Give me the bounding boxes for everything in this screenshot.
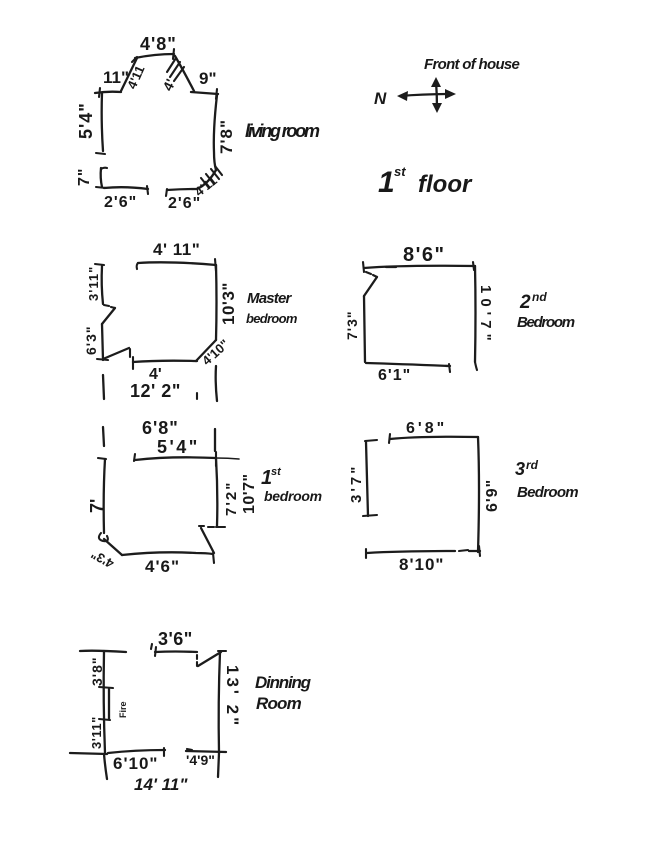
wall bed3 top: [390, 437, 478, 439]
DINING ROOM: [70, 629, 312, 794]
svg-text:7'3": 7'3": [344, 310, 360, 340]
wall master bottom: [133, 361, 197, 362]
svg-text:8'10": 8'10": [399, 555, 444, 574]
svg-text:Fire: Fire: [118, 701, 128, 718]
tick bottom-left: [365, 549, 367, 558]
svg-text:bedroom: bedroom: [246, 311, 298, 326]
svg-text:6'10": 6'10": [113, 754, 158, 773]
tick top-left: [132, 57, 137, 62]
wall stub below-left: [104, 754, 107, 779]
door jamb dashes: [196, 655, 198, 666]
svg-text:st: st: [271, 466, 282, 478]
tick bottom mid: [163, 748, 165, 756]
wall diagonal corner: [104, 539, 122, 555]
wall stub above-right: [214, 429, 216, 451]
tick dim top: [365, 440, 377, 441]
svg-text:Bedroom: Bedroom: [517, 314, 575, 331]
svg-text:4'6": 4'6": [145, 557, 180, 576]
svg-text:12' 2": 12' 2": [130, 381, 181, 401]
svg-text:8'6": 8'6": [403, 244, 445, 266]
tick top-left: [363, 262, 364, 272]
door dashes left: [104, 305, 115, 308]
svg-text:7'2": 7'2": [223, 481, 240, 516]
tick bottom-left horizontal: [97, 359, 108, 360]
wall master right: [215, 265, 218, 340]
wall living upper-right diagonal: [175, 56, 194, 91]
tick bottom-right: [449, 364, 450, 372]
svg-text:bedroom: bedroom: [264, 488, 322, 504]
3RD BEDROOM: [348, 420, 578, 574]
tick top-right: [215, 259, 216, 271]
door hatch marks bottom-right: [201, 178, 209, 188]
svg-text:3: 3: [515, 459, 525, 479]
svg-text:Front of house: Front of house: [424, 56, 520, 73]
small dash between rooms: [196, 393, 198, 399]
tick bottom-left right-end: [147, 186, 148, 194]
svg-text:Bedroom: Bedroom: [517, 484, 578, 501]
svg-text:10'7": 10'7": [477, 285, 494, 346]
svg-text:Dinning: Dinning: [255, 673, 312, 692]
svg-text:4' 11": 4' 11": [153, 240, 200, 259]
svg-text:4'3": 4'3": [88, 547, 116, 572]
wall master left lower: [102, 324, 103, 360]
LIVING ROOM: [76, 34, 320, 212]
tick top-right: [173, 49, 174, 59]
wall stub below-left: [103, 375, 104, 399]
2ND BEDROOM: [344, 244, 575, 384]
tick left wall bottom: [96, 153, 105, 154]
wall master left upper: [102, 266, 103, 304]
svg-text:4'8": 4'8": [140, 34, 177, 54]
tick dim bottom: [363, 515, 377, 516]
door diagonal bottom-left: [103, 348, 129, 359]
svg-text:6'8": 6'8": [142, 418, 179, 438]
tick top-left horizontal: [95, 264, 104, 265]
wall stub above-left: [103, 427, 104, 446]
tick bottom-right: [213, 553, 214, 563]
wall bed1 right: [216, 458, 217, 526]
tick bottom-left: [132, 357, 134, 369]
svg-text:4'10": 4'10": [199, 336, 232, 368]
compass horizontal arrow: [400, 94, 452, 96]
wall stub below-right: [216, 366, 217, 401]
dimension line left: [366, 442, 368, 516]
door hatch marks upper-right: [167, 58, 176, 72]
wall bottom-right curve: [197, 170, 216, 189]
wall living left: [102, 93, 103, 151]
svg-text:rd: rd: [526, 458, 539, 472]
wall top overshoot: [216, 458, 239, 459]
door diagonal bottom-right: [201, 528, 214, 553]
svg-text:10'3": 10'3": [219, 282, 238, 325]
svg-text:2'6": 2'6": [104, 194, 137, 211]
door dashes left: [366, 272, 377, 277]
svg-text:6'9": 6'9": [484, 479, 501, 512]
tick 7in bottom: [96, 187, 106, 188]
wall bed2 left: [364, 296, 365, 362]
wall top-left horizontal: [95, 92, 121, 93]
svg-text:7": 7": [76, 168, 93, 186]
tick before 3'6": [151, 644, 152, 649]
tick left-top: [98, 458, 106, 459]
1ST BEDROOM: [87, 418, 322, 576]
svg-text:1: 1: [378, 166, 395, 199]
wall living upper-left diagonal: [121, 58, 137, 91]
svg-text:6'8": 6'8": [406, 420, 447, 437]
door diagonal left: [364, 277, 377, 296]
wall master top: [138, 262, 216, 265]
svg-text:11": 11": [103, 68, 129, 87]
svg-text:3'7": 3'7": [348, 464, 365, 503]
door dashes bottom-right: [199, 526, 214, 527]
tick fireplace top: [99, 687, 113, 688]
wall top-right horizontal: [191, 92, 218, 94]
wall 7-inch segment: [101, 168, 102, 187]
tick bottom-right left-end: [166, 189, 167, 196]
svg-text:14' 11": 14' 11": [134, 775, 188, 794]
tick right-bottom horizontal: [216, 526, 225, 528]
tick 7in top: [101, 168, 107, 169]
door diagonal left: [102, 308, 115, 324]
door diagonal top: [198, 652, 221, 666]
wall dining right: [219, 652, 220, 753]
svg-text:floor: floor: [418, 171, 473, 198]
svg-text:2: 2: [519, 292, 531, 313]
tick bottom-right: [479, 546, 480, 556]
ink blotch on top wall: [386, 266, 396, 268]
svg-text:6'3": 6'3": [83, 325, 99, 355]
svg-text:nd: nd: [532, 290, 547, 304]
svg-text:5'4": 5'4": [157, 437, 200, 457]
tick top-right cross: [215, 452, 217, 466]
svg-text:st: st: [394, 164, 406, 179]
svg-text:'4'9": '4'9": [186, 752, 215, 768]
wall bottom-right horizontal: [167, 189, 197, 190]
svg-text:3'11": 3'11": [89, 716, 104, 749]
svg-text:3'11": 3'11": [86, 266, 101, 301]
svg-text:N: N: [374, 89, 387, 108]
compass vertical arrow: [436, 81, 437, 109]
wall bed3 right: [478, 437, 479, 552]
svg-text:6'1": 6'1": [378, 367, 411, 384]
wall dining bottom-right piece: [186, 751, 226, 752]
wall bed2 top: [364, 266, 475, 268]
hook top-left: [137, 263, 138, 269]
wall living right: [214, 95, 217, 170]
svg-text:2'6": 2'6": [168, 195, 201, 212]
svg-text:3'8": 3'8": [89, 656, 105, 686]
svg-text:Room: Room: [256, 694, 302, 713]
wall bottom-left: [104, 187, 148, 189]
tick left-end cross: [99, 88, 100, 97]
bottom end piece: [469, 550, 480, 552]
bottom dash right: [459, 550, 468, 551]
svg-text:3'6": 3'6": [158, 629, 193, 649]
svg-text:7'8": 7'8": [217, 119, 236, 154]
tick top-left: [389, 434, 390, 443]
tick top-right horizontal: [218, 650, 226, 652]
wall bed3 bottom: [367, 551, 455, 553]
wall dining bottom: [108, 750, 165, 753]
tick door-left: [155, 647, 156, 656]
svg-text:13' 2": 13' 2": [223, 665, 242, 728]
wall bed2 bottom: [366, 363, 450, 366]
wall bed1 top: [135, 457, 216, 460]
tick right-end: [216, 89, 217, 99]
wall living top: [135, 54, 174, 58]
wall dining top-left: [80, 651, 126, 652]
svg-text:9": 9": [199, 69, 217, 88]
door jamb dash: [129, 349, 131, 357]
tick fireplace bottom: [99, 719, 110, 720]
wall bed2 right: [474, 266, 477, 362]
corner loop: [99, 533, 108, 541]
hook on bottom-right piece: [187, 749, 192, 750]
wall dining left: [104, 651, 105, 753]
svg-text:Master: Master: [247, 290, 293, 307]
wall master diagonal corner: [196, 340, 216, 361]
svg-text:10'7": 10'7": [241, 473, 258, 514]
tick top-right: [473, 262, 474, 270]
wall door top line: [155, 650, 197, 653]
wall bed1 left: [104, 459, 105, 533]
hook right-bottom: [475, 362, 477, 370]
fireplace line: [108, 689, 110, 719]
svg-text:living room: living room: [245, 121, 320, 141]
MASTER BEDROOM: [83, 240, 298, 401]
svg-text:7': 7': [87, 499, 107, 513]
tick bottom-left long: [70, 753, 107, 754]
wall bed1 bottom: [122, 552, 213, 555]
COMPASS: [374, 56, 520, 199]
svg-text:5'4": 5'4": [76, 102, 96, 139]
tick top-left: [134, 454, 135, 461]
wall stub below-right: [218, 753, 219, 777]
